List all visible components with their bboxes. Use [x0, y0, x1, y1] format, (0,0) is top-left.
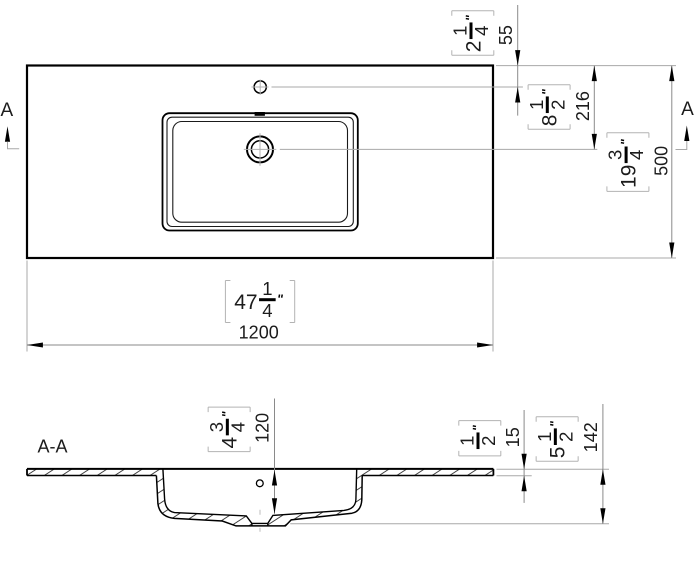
label 5 1/2 inch — [534, 417, 578, 462]
label 2 1/4 inch — [450, 11, 494, 56]
svg-text:1: 1 — [534, 432, 555, 442]
label 47 1/4 inch — [225, 278, 294, 322]
section slab left end — [26, 469, 28, 476]
svg-text:142: 142 — [581, 422, 601, 452]
basin outer wall profile — [156, 476, 362, 526]
dimension line 142 — [602, 404, 604, 524]
svg-text:19: 19 — [617, 165, 640, 188]
dimension line 500 — [671, 66, 673, 258]
drain hole inner — [251, 141, 268, 158]
svg-text:216: 216 — [573, 91, 593, 121]
basin rim outer edge — [163, 113, 358, 230]
svg-text:4: 4 — [262, 300, 272, 321]
section material (hatched) — [27, 469, 493, 526]
svg-text:4: 4 — [471, 26, 492, 36]
svg-text:1: 1 — [457, 436, 478, 446]
faucet hole — [254, 81, 266, 93]
drain hole edges — [251, 523, 253, 526]
overflow hole (section) — [256, 480, 263, 487]
svg-text:3: 3 — [605, 150, 626, 160]
basin rim middle edge — [167, 117, 353, 226]
svg-text:55: 55 — [496, 25, 516, 45]
svg-text:A: A — [1, 100, 14, 121]
drain centerlines — [244, 133, 276, 166]
svg-text:5: 5 — [547, 447, 570, 459]
overflow slot mark — [255, 112, 265, 116]
basin inner wall profile — [163, 469, 357, 524]
svg-text:3: 3 — [206, 422, 227, 432]
svg-text:8: 8 — [539, 115, 562, 127]
drain hole outer — [247, 136, 273, 162]
extension lines top view — [27, 66, 676, 352]
svg-text:120: 120 — [253, 413, 273, 443]
svg-text:2: 2 — [555, 432, 576, 442]
section slab right end — [492, 469, 494, 476]
label 4 3/4 inch — [206, 407, 250, 452]
label 8 1/2 inch — [526, 85, 570, 130]
svg-text:4: 4 — [626, 150, 647, 160]
svg-text:500: 500 — [651, 146, 671, 176]
svg-text:4: 4 — [227, 422, 248, 432]
svg-text:2: 2 — [478, 436, 499, 446]
section slab bottom edges — [27, 475, 156, 477]
label 1/2 inch — [457, 421, 501, 456]
dimension line 1200 — [27, 344, 493, 346]
svg-text:A-A: A-A — [37, 437, 67, 457]
svg-text:1: 1 — [526, 100, 547, 110]
countertop outline (top view 1200x500) — [27, 66, 493, 259]
section slab top edge — [27, 468, 493, 470]
svg-text:2: 2 — [547, 100, 568, 110]
svg-text:15: 15 — [503, 427, 523, 447]
dimension line 216 — [593, 66, 595, 150]
svg-text:2: 2 — [462, 41, 485, 53]
svg-text:4: 4 — [219, 437, 242, 449]
svg-text:47: 47 — [234, 291, 257, 314]
dimension line 55 — [517, 5, 519, 116]
svg-text:A: A — [681, 99, 694, 120]
dimension line 120 — [274, 399, 276, 514]
section extension lines — [290, 469, 609, 523]
svg-text:1: 1 — [450, 26, 471, 36]
drain centerline (section) — [259, 510, 261, 515]
faucet hole centerlines — [252, 80, 269, 95]
label 19 3/4 inch — [605, 133, 649, 192]
basin bottom edge — [173, 122, 348, 223]
dimension line 15 — [523, 410, 525, 503]
svg-text:1200: 1200 — [239, 323, 279, 343]
svg-text:1: 1 — [262, 278, 272, 299]
